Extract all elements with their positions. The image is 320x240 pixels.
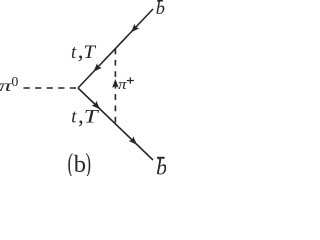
svg-text:0: 0 [11, 75, 18, 90]
svg-text:): ) [86, 148, 91, 176]
svg-text:T: T [83, 43, 97, 63]
svg-text:T: T [84, 108, 100, 128]
svg-text:t: t [71, 108, 77, 128]
svg-text:b: b [156, 0, 165, 18]
svg-text:t: t [71, 43, 77, 63]
svg-text:(: ( [68, 148, 73, 176]
svg-text:π: π [118, 77, 127, 93]
svg-text:b: b [74, 151, 86, 176]
svg-text:b: b [156, 154, 166, 176]
